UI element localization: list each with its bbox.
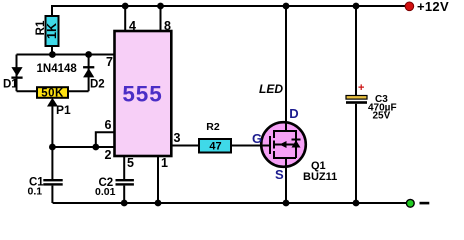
svg-text:1: 1 bbox=[161, 156, 168, 170]
resistor R1 bbox=[35, 16, 59, 46]
node +12V terminal bbox=[405, 2, 414, 11]
wire C1 top lead bbox=[51, 147, 53, 179]
wire R1 bottom lead bbox=[51, 46, 53, 55]
diode D2 bbox=[83, 66, 105, 90]
node junction pin4/rail bbox=[122, 3, 129, 10]
svg-text:25V: 25V bbox=[373, 111, 391, 122]
svg-text:R2: R2 bbox=[206, 121, 220, 133]
node junction C3/rail bbox=[353, 3, 360, 10]
node negative terminal bbox=[406, 199, 414, 207]
svg-text:BUZ11: BUZ11 bbox=[303, 171, 337, 183]
wire pin4 lead bbox=[124, 6, 126, 31]
node junction drain/rail bbox=[283, 3, 290, 10]
wire C1 bottom lead bbox=[51, 186, 53, 203]
svg-text:D1: D1 bbox=[3, 79, 18, 91]
svg-text:S: S bbox=[275, 167, 284, 182]
wire R1 top lead bbox=[51, 5, 53, 16]
svg-text:R1: R1 bbox=[35, 20, 47, 35]
wire pin7 horizontal bbox=[17, 54, 115, 56]
svg-text:555: 555 bbox=[122, 82, 162, 107]
svg-text:6: 6 bbox=[105, 118, 112, 132]
wire pin2 horizontal bbox=[52, 146, 114, 148]
svg-text:G: G bbox=[252, 131, 262, 146]
svg-text:0.01: 0.01 bbox=[95, 186, 116, 198]
wire pin6 link bbox=[96, 132, 115, 147]
capacitor C3 electrolytic bbox=[346, 82, 397, 122]
wire C2 bottom lead bbox=[123, 186, 125, 203]
wire top +12V rail bbox=[52, 5, 405, 7]
svg-text:7: 7 bbox=[106, 55, 113, 69]
label minus bbox=[420, 202, 430, 205]
svg-text:50K: 50K bbox=[41, 87, 64, 99]
svg-text:LED: LED bbox=[259, 82, 283, 96]
wire P1 to D2 bbox=[68, 90, 89, 92]
node junction source/ground bbox=[283, 200, 290, 207]
IC U1 555 timer bbox=[115, 31, 172, 156]
svg-text:4: 4 bbox=[129, 19, 136, 33]
diode D1 bbox=[3, 67, 23, 90]
wire drain lead from rail bbox=[285, 6, 287, 124]
node junction C3/ground bbox=[353, 200, 360, 207]
svg-text:+12V: +12V bbox=[417, 0, 449, 14]
wire C3 top lead bbox=[355, 6, 357, 96]
wire D1 vertical lead bbox=[16, 55, 18, 92]
capacitor C1 bbox=[28, 177, 63, 198]
node junction D2/pin7 bbox=[85, 51, 92, 58]
wire pin1 lead bbox=[157, 156, 159, 203]
svg-text:0.1: 0.1 bbox=[28, 186, 43, 198]
svg-text:D: D bbox=[289, 106, 298, 121]
transistor Q1 BUZ11 bbox=[261, 122, 306, 167]
wire pin3 to R2 bbox=[171, 145, 199, 147]
potentiometer P1 50K bbox=[37, 87, 71, 117]
wire D2 vertical lead bbox=[88, 55, 90, 92]
wire R2 to gate bbox=[231, 145, 262, 147]
node junction pin8/rail bbox=[157, 3, 164, 10]
wire source lead to ground bbox=[285, 166, 287, 203]
node junction wiper/pin2 bbox=[49, 144, 56, 151]
svg-text:8: 8 bbox=[164, 19, 171, 33]
svg-text:3: 3 bbox=[174, 131, 181, 145]
wire P1 wiper down bbox=[51, 104, 53, 147]
wire C3 bottom lead bbox=[355, 104, 357, 203]
wire pin8 lead bbox=[160, 6, 162, 31]
svg-text:1K: 1K bbox=[45, 23, 59, 39]
wire pin5 lead bbox=[123, 156, 125, 179]
svg-text:47: 47 bbox=[209, 141, 221, 153]
svg-text:1N4148: 1N4148 bbox=[37, 63, 78, 75]
node junction pin6/pin2 bbox=[92, 144, 99, 151]
wire D1 to P1 bbox=[17, 90, 38, 92]
svg-text:2: 2 bbox=[105, 148, 112, 162]
svg-text:P1: P1 bbox=[56, 103, 71, 117]
wire bottom ground rail bbox=[53, 202, 407, 204]
capacitor C2 bbox=[95, 177, 134, 198]
svg-text:+: + bbox=[358, 82, 364, 94]
svg-text:D2: D2 bbox=[90, 79, 105, 91]
node junction R1/pin7 bbox=[49, 51, 56, 58]
svg-text:5: 5 bbox=[127, 156, 134, 170]
resistor R2 bbox=[199, 121, 231, 153]
node junction pin1/ground bbox=[155, 200, 162, 207]
node junction C2/ground bbox=[121, 200, 128, 207]
